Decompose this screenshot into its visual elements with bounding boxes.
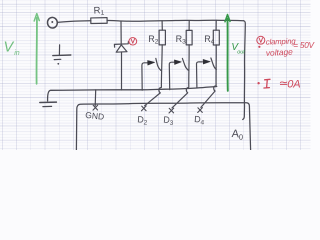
diode D2 clamp (anode lead, arrow, cathode bar) [142, 58, 161, 90]
wire D2 input line with hop and terminal x [142, 45, 163, 111]
label Vout (green) [231, 42, 245, 56]
svg-text:R3: R3 [176, 34, 187, 46]
svg-text:D2: D2 [137, 114, 148, 127]
svg-text:= 50V: = 50V [293, 41, 315, 50]
svg-text:voltage: voltage [266, 47, 294, 58]
red circled V (zener voltage mark) [128, 37, 137, 46]
wire zener branch [120, 21, 122, 43]
resistor R2 [159, 21, 165, 45]
Vout arrow (green) [225, 15, 230, 91]
label Vin (green) [4, 40, 20, 57]
wire D3 input line with hop and terminal x [169, 45, 189, 113]
svg-text:D4: D4 [194, 114, 205, 127]
zener diode Z1 [114, 42, 128, 90]
diode D3 clamp [169, 58, 188, 89]
source terminal (circle with dot) [47, 17, 58, 29]
wire D4 input line with hop and terminal x [198, 45, 217, 113]
svg-text:R1: R1 [93, 5, 104, 17]
red annotation: circled V clamping voltage = 50V [257, 36, 265, 44]
resistor R1 [91, 18, 107, 24]
wire top rail [57, 20, 243, 22]
connector bracket [76, 103, 250, 150]
resistor R4 [213, 20, 219, 45]
svg-text:GND: GND [85, 110, 105, 122]
svg-text:in: in [14, 50, 20, 57]
svg-text:0A: 0A [287, 79, 300, 91]
svg-text:A0: A0 [231, 128, 243, 142]
svg-text:D3: D3 [163, 114, 174, 127]
svg-text:R2: R2 [148, 34, 159, 46]
Vin arrow (green) [34, 14, 39, 84]
ground (bus ground symbol) [40, 102, 57, 107]
wire GND terminal drop with x [93, 90, 98, 110]
red annotation: I approx 0A [257, 78, 300, 91]
wire output to A0 [243, 21, 246, 120]
svg-text:out: out [237, 49, 245, 55]
svg-text:V: V [4, 40, 15, 56]
diode D4 clamp [196, 58, 216, 88]
svg-text:clamping: clamping [266, 37, 297, 47]
wire ground bus [48, 87, 217, 101]
ground (source reference) [53, 45, 71, 65]
resistor R3 [186, 21, 192, 45]
